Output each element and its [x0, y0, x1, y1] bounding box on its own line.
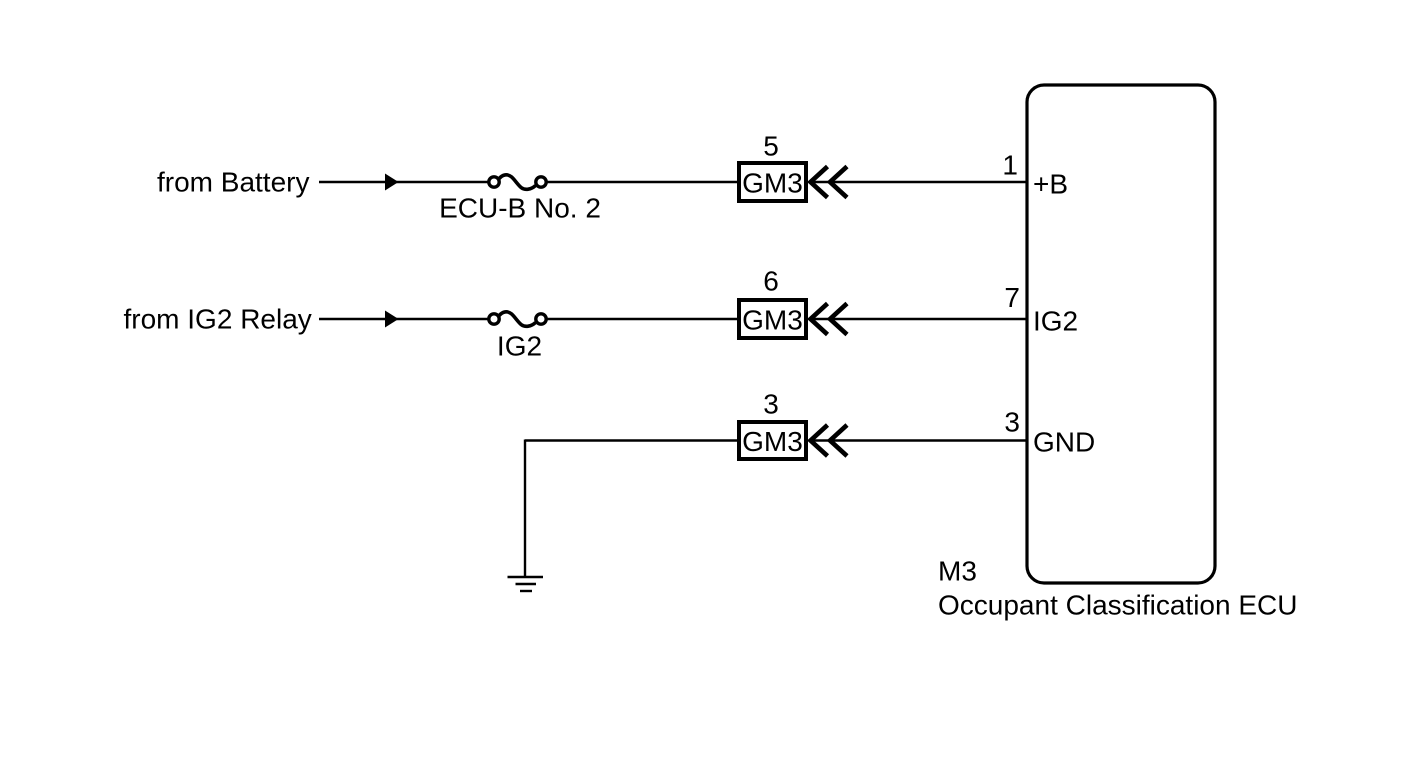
- svg-text:M3: M3: [938, 556, 977, 587]
- svg-text:from Battery: from Battery: [157, 167, 309, 198]
- svg-text:5: 5: [763, 131, 779, 162]
- svg-text:3: 3: [1004, 406, 1020, 437]
- svg-text:GM3: GM3: [742, 426, 803, 457]
- svg-text:3: 3: [763, 389, 779, 420]
- svg-text:7: 7: [1004, 282, 1020, 313]
- svg-text:GND: GND: [1033, 427, 1095, 458]
- svg-text:IG2: IG2: [497, 330, 542, 361]
- svg-text:GM3: GM3: [742, 305, 803, 336]
- svg-text:Occupant Classification ECU: Occupant Classification ECU: [938, 590, 1297, 621]
- svg-text:6: 6: [763, 266, 779, 297]
- svg-text:ECU-B No. 2: ECU-B No. 2: [439, 192, 601, 223]
- svg-text:from IG2 Relay: from IG2 Relay: [124, 303, 312, 334]
- svg-text:GM3: GM3: [742, 168, 803, 199]
- svg-text:1: 1: [1002, 150, 1018, 181]
- svg-text:IG2: IG2: [1033, 306, 1078, 337]
- svg-text:+B: +B: [1033, 169, 1068, 200]
